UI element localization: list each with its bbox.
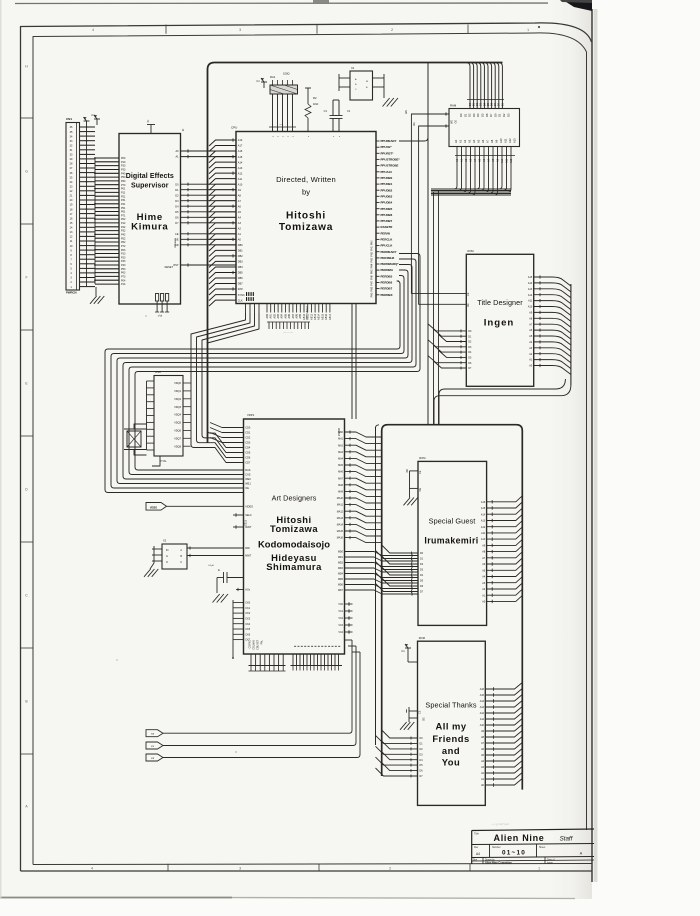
svg-text:A16: A16 bbox=[481, 501, 486, 504]
svg-text:MA15: MA15 bbox=[337, 530, 344, 533]
svg-text:PPUCLK: PPUCLK bbox=[381, 244, 394, 248]
svg-text:M: M bbox=[366, 81, 368, 83]
svg-text:Staff: Staff bbox=[560, 836, 574, 843]
svg-text:1: 1 bbox=[538, 866, 540, 870]
svg-text:VC1: VC1 bbox=[338, 610, 343, 613]
svg-text:Directed, Written: Directed, Written bbox=[276, 175, 336, 184]
svg-text:MA1: MA1 bbox=[338, 438, 344, 441]
svg-text:3: 3 bbox=[239, 866, 241, 870]
svg-text:and: and bbox=[442, 745, 460, 756]
svg-text:C: C bbox=[180, 561, 182, 564]
svg-text:DB1: DB1 bbox=[238, 250, 243, 253]
svg-text:AB0: AB0 bbox=[266, 313, 269, 318]
svg-text:P30: P30 bbox=[121, 169, 126, 172]
svg-text:P22: P22 bbox=[121, 226, 126, 229]
svg-text:x: x bbox=[339, 136, 341, 137]
svg-text:P71: P71 bbox=[121, 214, 126, 217]
svg-text:OE: OE bbox=[422, 717, 425, 721]
svg-text:AB2: AB2 bbox=[273, 313, 276, 318]
svg-text:MA16: MA16 bbox=[337, 537, 344, 540]
svg-text:DB4: DB4 bbox=[238, 266, 243, 269]
svg-text:CK4: CK4 bbox=[245, 623, 250, 626]
svg-text:VC4: VC4 bbox=[338, 631, 343, 634]
svg-text:Friends: Friends bbox=[432, 733, 469, 744]
svg-text:P10: P10 bbox=[121, 161, 126, 164]
svg-text:AGx: AGx bbox=[245, 589, 251, 592]
svg-text:A17: A17 bbox=[238, 145, 243, 148]
svg-text:CN1: CN1 bbox=[66, 117, 72, 121]
svg-text:P20: P20 bbox=[121, 165, 126, 168]
svg-text:A12: A12 bbox=[238, 172, 243, 175]
svg-text:x: x bbox=[308, 136, 310, 137]
svg-text:Alien Nine: Alien Nine bbox=[493, 833, 544, 843]
svg-text:PH3: PH3 bbox=[372, 257, 374, 262]
svg-text:AB6: AB6 bbox=[288, 313, 291, 318]
svg-text:CD6: CD6 bbox=[245, 457, 251, 460]
svg-text:A14: A14 bbox=[238, 161, 243, 164]
svg-text:CD0: CD0 bbox=[245, 427, 251, 430]
svg-text:PER/W: PER/W bbox=[381, 231, 391, 235]
svg-text:4: 4 bbox=[91, 866, 93, 870]
svg-text:PPUSTROBE: PPUSTROBE bbox=[381, 164, 399, 168]
svg-text:MA7: MA7 bbox=[338, 477, 344, 480]
svg-text:Hitoshi: Hitoshi bbox=[286, 211, 326, 222]
svg-text:Digital Effects: Digital Effects bbox=[126, 173, 174, 180]
svg-text:DB3: DB3 bbox=[238, 261, 243, 264]
svg-text:AB17: AB17 bbox=[329, 313, 332, 320]
svg-text:AB16: AB16 bbox=[325, 313, 328, 320]
svg-text:MA6: MA6 bbox=[338, 471, 344, 474]
svg-text:DB0: DB0 bbox=[238, 244, 243, 247]
svg-text:P03: P03 bbox=[121, 249, 126, 252]
svg-text:A12: A12 bbox=[481, 526, 486, 529]
svg-text:P12: P12 bbox=[121, 222, 126, 225]
svg-text:x: x bbox=[273, 136, 275, 137]
svg-text:A12: A12 bbox=[528, 294, 533, 297]
svg-text:MA2: MA2 bbox=[338, 444, 344, 447]
svg-text:A15: A15 bbox=[528, 276, 533, 279]
svg-text:3: 3 bbox=[239, 28, 241, 32]
svg-text:PPUDB4: PPUDB4 bbox=[381, 201, 393, 205]
svg-text:MA8: MA8 bbox=[338, 484, 344, 487]
svg-text:AB4: AB4 bbox=[281, 313, 284, 318]
svg-text:Ingen: Ingen bbox=[484, 318, 515, 329]
svg-text:PH9: PH9 bbox=[372, 292, 374, 297]
svg-text:PPUA13: PPUA13 bbox=[381, 170, 393, 174]
svg-text:VC2: VC2 bbox=[338, 617, 343, 620]
svg-text:MD6: MD6 bbox=[338, 584, 344, 587]
svg-text:CD7: CD7 bbox=[245, 462, 251, 465]
svg-text:A13: A13 bbox=[528, 288, 533, 291]
svg-text:P13: P13 bbox=[121, 253, 126, 256]
svg-text:CD1: CD1 bbox=[245, 432, 251, 435]
svg-text:A13: A13 bbox=[480, 706, 485, 709]
svg-text:P72: P72 bbox=[121, 245, 126, 248]
svg-text:A11: A11 bbox=[480, 718, 485, 721]
svg-text:MA11: MA11 bbox=[337, 504, 344, 507]
svg-text:CK2: CK2 bbox=[245, 612, 250, 615]
svg-text:P11: P11 bbox=[121, 192, 126, 195]
svg-text:VIDEO: VIDEO bbox=[245, 505, 253, 508]
svg-text:A11: A11 bbox=[528, 300, 533, 303]
svg-text:MD3: MD3 bbox=[338, 567, 344, 570]
svg-text:VDQ2: VDQ2 bbox=[174, 398, 181, 401]
svg-text:RAM: RAM bbox=[450, 104, 457, 108]
svg-text:4: 4 bbox=[92, 28, 94, 32]
svg-text:P50: P50 bbox=[121, 176, 126, 179]
svg-text:▌▌▌▌: ▌▌▌▌ bbox=[246, 292, 255, 296]
svg-text:AB9: AB9 bbox=[299, 313, 302, 318]
svg-text:RST: RST bbox=[174, 264, 179, 267]
svg-text:CD2: CD2 bbox=[245, 437, 251, 440]
svg-text:O: O bbox=[166, 561, 168, 564]
svg-text:AB1: AB1 bbox=[270, 313, 273, 318]
svg-text:Issue: Issue bbox=[547, 861, 553, 864]
svg-text:MA10: MA10 bbox=[337, 497, 344, 500]
svg-text:P04: P04 bbox=[121, 279, 126, 282]
svg-text:CE: CE bbox=[418, 710, 421, 714]
svg-text:PPUDB5: PPUDB5 bbox=[381, 207, 393, 211]
svg-text:RAS: RAS bbox=[245, 469, 250, 472]
svg-text:A16: A16 bbox=[238, 150, 243, 153]
svg-text:PH8: PH8 bbox=[372, 286, 374, 291]
svg-text:PERDMA: PERDMA bbox=[381, 268, 394, 272]
svg-text:PH4: PH4 bbox=[372, 263, 374, 268]
svg-text:Special Thanks: Special Thanks bbox=[425, 701, 476, 710]
svg-text:DB2: DB2 bbox=[238, 255, 243, 258]
svg-text:PPUCE*: PPUCE* bbox=[381, 145, 393, 149]
svg-text:P33: P33 bbox=[121, 260, 126, 263]
svg-text:············: ············ bbox=[283, 331, 294, 334]
svg-text:VDQ3: VDQ3 bbox=[174, 406, 181, 409]
svg-text:CD5: CD5 bbox=[245, 452, 251, 455]
svg-text:A13: A13 bbox=[238, 167, 243, 170]
svg-text:MD2: MD2 bbox=[338, 562, 344, 565]
svg-text:OE: OE bbox=[413, 122, 416, 126]
svg-text:2: 2 bbox=[391, 28, 393, 32]
svg-text:Art Designers: Art Designers bbox=[272, 494, 317, 503]
svg-text:IN: IN bbox=[166, 549, 169, 552]
svg-text:PERDB5: PERDB5 bbox=[381, 274, 393, 278]
svg-text:Special Guest: Special Guest bbox=[429, 517, 476, 526]
svg-text:P32: P32 bbox=[121, 230, 126, 233]
svg-text:P52: P52 bbox=[121, 237, 126, 240]
svg-text:Shimamura: Shimamura bbox=[266, 561, 322, 572]
svg-text:P61: P61 bbox=[121, 211, 126, 214]
svg-text:MA14: MA14 bbox=[337, 524, 344, 527]
svg-text:P40: P40 bbox=[121, 172, 126, 175]
svg-text:CK1: CK1 bbox=[245, 607, 250, 610]
svg-text:2: 2 bbox=[389, 866, 391, 870]
svg-text:IO: IO bbox=[182, 129, 185, 132]
svg-text:A10: A10 bbox=[528, 306, 533, 309]
svg-text:PPURST*: PPURST* bbox=[381, 151, 395, 155]
svg-text:MA9: MA9 bbox=[338, 491, 344, 494]
svg-text:CBLANK: CBLANK bbox=[253, 640, 256, 650]
svg-text:P43: P43 bbox=[121, 264, 126, 267]
svg-text:WAIT: WAIT bbox=[245, 526, 252, 529]
svg-text:PH0: PH0 bbox=[372, 240, 374, 245]
svg-text:x: x bbox=[283, 136, 285, 137]
svg-text:PH5: PH5 bbox=[372, 269, 374, 274]
svg-text:MD5: MD5 bbox=[338, 578, 344, 581]
svg-text:MA5: MA5 bbox=[338, 464, 344, 467]
svg-text:VDP1: VDP1 bbox=[247, 413, 255, 417]
svg-text:x: x bbox=[288, 136, 290, 137]
svg-text:CK3: CK3 bbox=[245, 618, 250, 621]
svg-text:x: x bbox=[333, 136, 335, 137]
svg-text:A11: A11 bbox=[238, 178, 243, 181]
svg-text:A12: A12 bbox=[480, 712, 485, 715]
svg-text:P70: P70 bbox=[121, 184, 126, 187]
svg-text:PPUREADY: PPUREADY bbox=[381, 139, 397, 143]
svg-text:Title Designer: Title Designer bbox=[477, 298, 523, 307]
svg-text:P21: P21 bbox=[121, 195, 126, 198]
svg-text:P14: P14 bbox=[121, 283, 126, 286]
svg-text:01~10: 01~10 bbox=[502, 850, 526, 857]
svg-text:WE0: WE0 bbox=[245, 478, 251, 481]
svg-text:VIDEO: VIDEO bbox=[150, 507, 157, 509]
svg-text:VDQ6: VDQ6 bbox=[174, 430, 181, 433]
svg-text:DB5: DB5 bbox=[238, 272, 243, 275]
svg-text:P60: P60 bbox=[121, 180, 126, 183]
svg-text:VDQ0: VDQ0 bbox=[174, 382, 181, 385]
svg-text:P00: P00 bbox=[121, 157, 126, 160]
svg-text:CK5: CK5 bbox=[245, 628, 250, 631]
svg-text:OE: OE bbox=[245, 487, 249, 490]
svg-text:SEL5: SEL5 bbox=[244, 519, 247, 526]
svg-text:Tomizawa: Tomizawa bbox=[270, 523, 318, 534]
svg-text:P63: P63 bbox=[121, 272, 126, 275]
svg-text:PH6: PH6 bbox=[372, 275, 374, 280]
svg-text:G: G bbox=[166, 555, 168, 558]
svg-text:PPUSTROBE*: PPUSTROBE* bbox=[381, 158, 401, 162]
svg-text:PERDB6: PERDB6 bbox=[381, 281, 393, 285]
svg-text:A16: A16 bbox=[480, 688, 485, 691]
svg-text:A10: A10 bbox=[238, 139, 243, 142]
svg-text:P23: P23 bbox=[121, 256, 126, 259]
svg-text:PH2: PH2 bbox=[372, 251, 374, 256]
svg-text:VDQ7: VDQ7 bbox=[174, 437, 181, 440]
svg-text:1: 1 bbox=[527, 28, 529, 32]
svg-text:RASETR: RASETR bbox=[381, 225, 394, 229]
svg-text:OE: OE bbox=[419, 488, 422, 492]
svg-text:CK6: CK6 bbox=[245, 633, 250, 636]
svg-text:PPUDB6: PPUDB6 bbox=[381, 213, 393, 217]
svg-text:SYNC: SYNC bbox=[238, 294, 245, 297]
svg-text:AB10: AB10 bbox=[303, 313, 306, 320]
svg-text:P42: P42 bbox=[121, 234, 126, 237]
svg-text:CK0: CK0 bbox=[245, 602, 250, 605]
svg-text:▌▌▌▌: ▌▌▌▌ bbox=[246, 297, 255, 301]
svg-text:A15: A15 bbox=[480, 694, 485, 697]
svg-text:MD7: MD7 bbox=[338, 589, 344, 592]
svg-text:PERDB7: PERDB7 bbox=[381, 287, 393, 291]
svg-text:AB13: AB13 bbox=[314, 313, 317, 320]
svg-text:R/W: R/W bbox=[238, 288, 244, 291]
svg-text:MA12: MA12 bbox=[337, 510, 344, 513]
svg-text:P41: P41 bbox=[121, 203, 126, 206]
svg-text:PPUDB2: PPUDB2 bbox=[381, 188, 393, 192]
svg-text:Supervisor: Supervisor bbox=[131, 183, 169, 190]
svg-text:You: You bbox=[442, 757, 461, 768]
svg-text:DB6: DB6 bbox=[238, 277, 243, 280]
svg-text:P01: P01 bbox=[121, 188, 126, 191]
svg-text:A14: A14 bbox=[481, 513, 486, 516]
svg-text:AB15: AB15 bbox=[321, 313, 324, 320]
svg-text:P53: P53 bbox=[121, 268, 126, 271]
svg-text:A4: A4 bbox=[476, 852, 480, 856]
svg-text:A10: A10 bbox=[480, 724, 485, 727]
svg-text:MW: MW bbox=[245, 547, 250, 550]
svg-text:PER4MHZ: PER4MHZ bbox=[381, 256, 395, 260]
svg-text:A14: A14 bbox=[528, 282, 533, 285]
svg-text:x: x bbox=[293, 136, 295, 137]
svg-text:PERCLK: PERCLK bbox=[381, 238, 394, 242]
svg-text:AB3: AB3 bbox=[277, 313, 280, 318]
svg-text:MD0: MD0 bbox=[338, 551, 344, 554]
svg-text:CSYNC: CSYNC bbox=[249, 640, 252, 649]
svg-text:G: G bbox=[25, 170, 28, 174]
svg-text:WE: WE bbox=[451, 120, 454, 124]
svg-text:MD1: MD1 bbox=[338, 556, 344, 559]
svg-text:CEOEWR: CEOEWR bbox=[175, 238, 177, 248]
svg-text:A11: A11 bbox=[481, 532, 486, 535]
svg-text:WE: WE bbox=[405, 110, 408, 114]
svg-text:PH7: PH7 bbox=[372, 280, 374, 285]
svg-text:P31: P31 bbox=[121, 199, 126, 202]
svg-text:OE: OE bbox=[455, 120, 458, 124]
svg-text:MD4: MD4 bbox=[338, 573, 344, 576]
svg-text:OSC: OSC bbox=[155, 370, 161, 374]
svg-text:MA13: MA13 bbox=[337, 517, 344, 520]
svg-text:PH1: PH1 bbox=[372, 246, 374, 251]
svg-text:by: by bbox=[302, 188, 310, 197]
svg-text:A10: A10 bbox=[238, 183, 243, 186]
svg-text:PERDBX: PERDBX bbox=[381, 293, 393, 297]
svg-text:CBURST: CBURST bbox=[257, 639, 260, 649]
svg-text:PERDMARQ*: PERDMARQ* bbox=[381, 262, 400, 266]
svg-text:AB7: AB7 bbox=[292, 313, 295, 318]
svg-text:VDQ4: VDQ4 bbox=[174, 414, 181, 417]
svg-text:VDQ1: VDQ1 bbox=[174, 390, 181, 393]
svg-text:AB12: AB12 bbox=[310, 313, 313, 320]
svg-text:CAS: CAS bbox=[245, 474, 250, 477]
svg-text:PPUDB7: PPUDB7 bbox=[381, 219, 393, 223]
svg-text:CLK: CLK bbox=[238, 299, 243, 302]
svg-text:PAL: PAL bbox=[261, 639, 264, 644]
svg-text:CPU: CPU bbox=[231, 126, 237, 130]
svg-text:VDQ8: VDQ8 bbox=[174, 445, 181, 448]
svg-text:VC3: VC3 bbox=[338, 624, 343, 627]
svg-text:P51: P51 bbox=[121, 207, 126, 210]
svg-text:MA3: MA3 bbox=[338, 451, 344, 454]
svg-text:AB14: AB14 bbox=[318, 313, 321, 320]
svg-text:CE: CE bbox=[419, 470, 422, 474]
svg-text:PPUDB0: PPUDB0 bbox=[381, 176, 393, 180]
svg-text:Number: Number bbox=[492, 846, 501, 849]
svg-text:A15: A15 bbox=[238, 156, 243, 159]
svg-text:x’tal: x’tal bbox=[158, 315, 163, 318]
svg-text:DB7: DB7 bbox=[238, 283, 243, 286]
svg-text:OE: OE bbox=[467, 303, 470, 307]
svg-text:CE: CE bbox=[467, 292, 470, 296]
svg-text:SEL0: SEL0 bbox=[245, 514, 252, 517]
svg-text:All my: All my bbox=[435, 721, 466, 732]
svg-text:CD4: CD4 bbox=[245, 447, 251, 450]
svg-text:P62: P62 bbox=[121, 241, 126, 244]
svg-text:F: F bbox=[25, 276, 27, 280]
svg-text:CE: CE bbox=[175, 233, 179, 236]
svg-text:AB8: AB8 bbox=[296, 313, 299, 318]
svg-text:PPUDB3: PPUDB3 bbox=[381, 194, 393, 198]
svg-text:PWRCN: PWRCN bbox=[66, 291, 77, 295]
svg-text:Irumakemiri: Irumakemiri bbox=[424, 536, 478, 546]
svg-text:PERREADY: PERREADY bbox=[381, 250, 397, 254]
svg-text:x: x bbox=[278, 136, 280, 137]
svg-text:A13: A13 bbox=[481, 520, 486, 523]
svg-text:~ e.g half part: ~ e.g half part bbox=[491, 822, 510, 826]
svg-text:PPUDB1: PPUDB1 bbox=[381, 182, 393, 186]
svg-text:VC0: VC0 bbox=[338, 603, 343, 606]
svg-text:Kimura: Kimura bbox=[131, 222, 168, 233]
svg-text:Sheet: Sheet bbox=[539, 846, 546, 849]
svg-text:PERCLKOUT: PERCLKOUT bbox=[307, 305, 309, 319]
svg-text:AB5: AB5 bbox=[284, 313, 287, 318]
svg-text:Tomizawa: Tomizawa bbox=[279, 222, 333, 233]
svg-text:VDQ5: VDQ5 bbox=[174, 422, 181, 425]
svg-text:MA4: MA4 bbox=[338, 458, 344, 461]
svg-text:CD3: CD3 bbox=[245, 442, 251, 445]
svg-text:A10: A10 bbox=[481, 538, 486, 541]
svg-text:MWT: MWT bbox=[245, 555, 251, 558]
svg-text:0.1µF: 0.1µF bbox=[208, 565, 214, 567]
svg-text:A15: A15 bbox=[481, 507, 486, 510]
svg-text:P73: P73 bbox=[121, 276, 126, 279]
svg-text:WE1: WE1 bbox=[245, 483, 251, 486]
svg-text:Kodomodaisojo: Kodomodaisojo bbox=[258, 539, 330, 550]
svg-text:P02: P02 bbox=[121, 218, 126, 221]
svg-text:A14: A14 bbox=[480, 700, 485, 703]
svg-text:RESET: RESET bbox=[165, 266, 174, 269]
svg-text:X’TAL: X’TAL bbox=[160, 460, 167, 463]
svg-text:MDQ07: MDQ07 bbox=[338, 427, 341, 436]
svg-text:••••: •••• bbox=[279, 124, 282, 126]
